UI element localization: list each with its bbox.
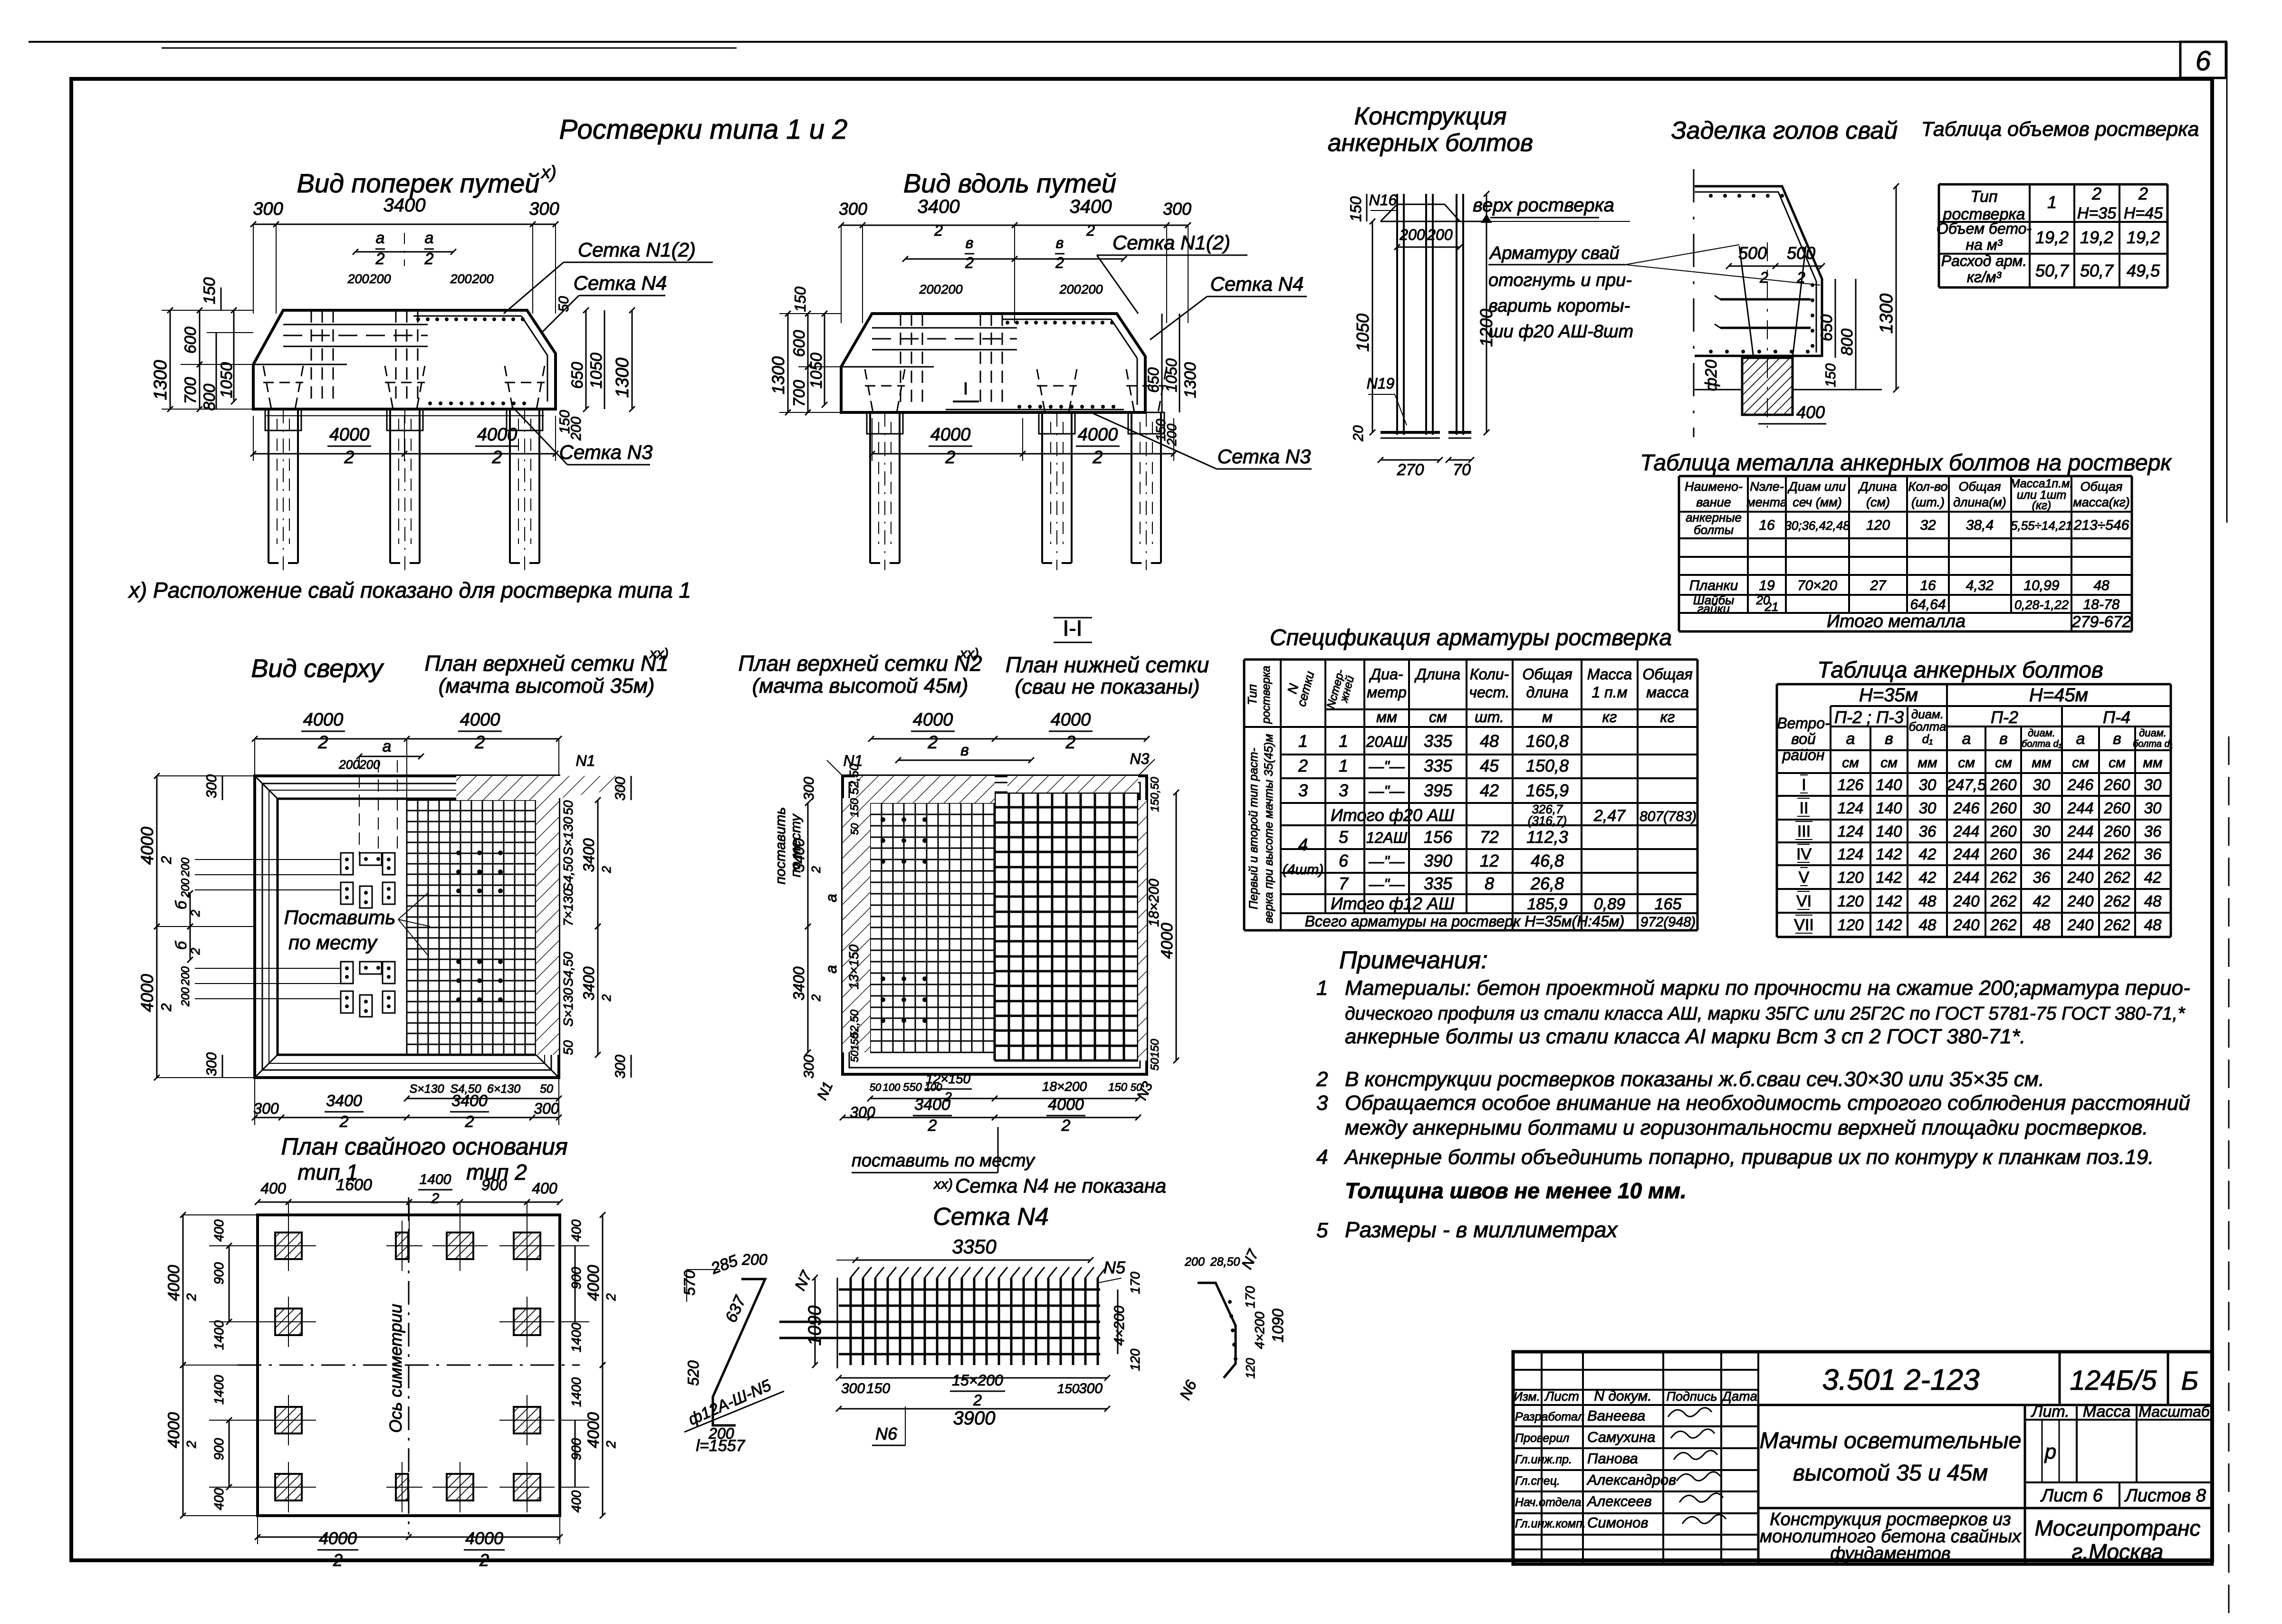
svg-text:Тип: Тип xyxy=(1970,188,1998,206)
svg-text:400: 400 xyxy=(569,1490,584,1512)
svg-text:кг/м³: кг/м³ xyxy=(1967,268,2002,286)
svg-text:а: а xyxy=(376,229,385,247)
svg-text:972(948): 972(948) xyxy=(1640,915,1696,930)
svg-text:21: 21 xyxy=(1764,600,1779,614)
svg-text:19,2: 19,2 xyxy=(2035,228,2069,247)
svg-text:Сетка N1(2): Сетка N1(2) xyxy=(1112,231,1230,254)
svg-text:16: 16 xyxy=(1759,517,1775,533)
svg-text:см: см xyxy=(1995,755,2012,771)
svg-text:200: 200 xyxy=(338,757,360,772)
svg-text:13×150: 13×150 xyxy=(846,944,861,989)
pile cap outline (vdol) xyxy=(841,314,1145,412)
svg-text:кг: кг xyxy=(1602,708,1617,726)
svg-text:(шт.): (шт.) xyxy=(1911,495,1945,509)
svg-text:б: б xyxy=(173,900,190,909)
svg-text:50: 50 xyxy=(561,800,575,815)
svg-text:2: 2 xyxy=(973,1392,982,1409)
svg-text:200: 200 xyxy=(471,272,493,286)
svg-text:Лит.: Лит. xyxy=(2031,1403,2070,1421)
svg-text:2: 2 xyxy=(184,1293,199,1301)
svg-text:300: 300 xyxy=(839,199,867,219)
svg-text:Сетка N4: Сетка N4 xyxy=(933,1203,1049,1231)
svg-text:1: 1 xyxy=(2047,192,2057,212)
svg-text:16: 16 xyxy=(1920,578,1936,593)
svg-text:Самухина: Самухина xyxy=(1587,1429,1655,1445)
svg-text:200: 200 xyxy=(359,757,380,772)
svg-text:140: 140 xyxy=(1876,776,1902,793)
svg-text:50: 50 xyxy=(561,1040,575,1055)
svg-text:1050: 1050 xyxy=(1353,314,1372,352)
svg-text:3400: 3400 xyxy=(326,1092,362,1110)
svg-text:0,28-1,22: 0,28-1,22 xyxy=(2014,598,2069,612)
svg-text:масса: масса xyxy=(1646,684,1689,701)
svg-text:Масштаб: Масштаб xyxy=(2138,1403,2210,1420)
svg-text:140: 140 xyxy=(1876,822,1902,840)
svg-text:50: 50 xyxy=(870,1081,882,1093)
svg-text:I: I xyxy=(1802,776,1806,794)
svg-text:4×200: 4×200 xyxy=(1252,1311,1267,1349)
svg-text:4000: 4000 xyxy=(165,1412,183,1448)
svg-text:50,7: 50,7 xyxy=(2080,261,2114,280)
svg-text:300: 300 xyxy=(801,1055,817,1079)
svg-text:48: 48 xyxy=(2144,892,2162,910)
svg-text:4,32: 4,32 xyxy=(1966,578,1994,593)
svg-text:см: см xyxy=(2072,755,2089,771)
svg-text:П-4: П-4 xyxy=(2103,707,2130,727)
svg-text:390: 390 xyxy=(1424,851,1452,870)
svg-text:(мачта высотой 45м): (мачта высотой 45м) xyxy=(752,674,968,697)
svg-text:200: 200 xyxy=(1081,282,1103,296)
svg-text:2: 2 xyxy=(928,1117,937,1135)
svg-text:335: 335 xyxy=(1424,874,1453,893)
svg-text:48: 48 xyxy=(2093,578,2109,593)
svg-text:200: 200 xyxy=(940,282,962,296)
svg-text:150: 150 xyxy=(201,277,219,305)
svg-text:4: 4 xyxy=(1316,1146,1328,1169)
svg-text:300: 300 xyxy=(1079,1381,1103,1396)
svg-text:300: 300 xyxy=(613,777,628,801)
hatched pile head xyxy=(1742,358,1793,415)
svg-text:S×130: S×130 xyxy=(410,1082,444,1096)
svg-text:650: 650 xyxy=(1145,367,1162,393)
svg-text:1300: 1300 xyxy=(768,356,788,394)
piles (poperek) xyxy=(268,409,269,563)
svg-text:III: III xyxy=(1797,822,1811,841)
svg-text:по месту: по месту xyxy=(788,813,804,878)
svg-text:6×130: 6×130 xyxy=(487,1082,520,1096)
page number box xyxy=(2180,42,2226,78)
svg-text:(4шт): (4шт) xyxy=(1283,862,1324,878)
view: vid vdol putei drawing xyxy=(841,225,1188,226)
svg-text:120: 120 xyxy=(1866,517,1890,533)
svg-text:Вид поперек путей: Вид поперек путей xyxy=(297,168,540,198)
svg-text:верх ростверка: верх ростверка xyxy=(1473,195,1614,216)
svg-text:800: 800 xyxy=(201,384,219,411)
svg-text:3350: 3350 xyxy=(952,1235,997,1258)
svg-text:12АШ: 12АШ xyxy=(1366,829,1408,846)
svg-text:10,99: 10,99 xyxy=(2023,578,2059,593)
hatched piles xyxy=(275,1232,302,1259)
svg-text:900: 900 xyxy=(481,1176,507,1194)
svg-text:30;36,42,48: 30;36,42,48 xyxy=(1784,518,1850,533)
svg-text:200: 200 xyxy=(179,966,192,986)
svg-text:поставить по месту: поставить по месту xyxy=(852,1151,1036,1171)
svg-text:142: 142 xyxy=(1876,916,1902,934)
svg-text:1: 1 xyxy=(1316,976,1328,1000)
svg-text:ф20: ф20 xyxy=(1702,360,1720,391)
svg-text:х): х) xyxy=(540,162,556,182)
svg-text:170: 170 xyxy=(1128,1271,1142,1294)
svg-text:4000: 4000 xyxy=(137,974,157,1012)
svg-text:260: 260 xyxy=(1990,776,2017,793)
svg-text:1050: 1050 xyxy=(807,353,825,389)
svg-text:диам.: диам. xyxy=(2139,727,2167,739)
svg-text:395: 395 xyxy=(1424,781,1453,800)
svg-text:36: 36 xyxy=(2033,845,2051,863)
svg-text:400: 400 xyxy=(211,1488,226,1510)
svg-text:70×20: 70×20 xyxy=(1797,578,1838,593)
left dimension chain (poperek) xyxy=(162,310,253,311)
svg-text:Масса: Масса xyxy=(1587,666,1632,683)
svg-text:в: в xyxy=(960,741,969,759)
svg-text:2: 2 xyxy=(479,1550,489,1570)
svg-text:В конструкции ростверков показ: В конструкции ростверков показаны ж.б.св… xyxy=(1345,1068,2044,1091)
svg-text:1400: 1400 xyxy=(569,1322,584,1352)
svg-text:400: 400 xyxy=(260,1180,286,1197)
svg-text:200: 200 xyxy=(1427,226,1453,243)
svg-text:—"—: —"— xyxy=(1368,853,1405,870)
svg-text:200: 200 xyxy=(1184,1255,1205,1269)
svg-text:42: 42 xyxy=(1480,781,1499,800)
svg-text:1300: 1300 xyxy=(1877,294,1897,334)
svg-text:Планки: Планки xyxy=(1689,578,1738,593)
svg-text:200: 200 xyxy=(1059,282,1081,296)
svg-text:а: а xyxy=(1846,730,1855,748)
svg-text:2: 2 xyxy=(2091,184,2101,203)
svg-text:244: 244 xyxy=(1953,869,1979,886)
svg-text:1: 1 xyxy=(1339,731,1348,751)
svg-text:300: 300 xyxy=(801,777,817,801)
svg-text:хх): хх) xyxy=(959,646,979,661)
svg-text:3400: 3400 xyxy=(790,966,807,1000)
svg-text:Гл.спец.: Гл.спец. xyxy=(1515,1474,1560,1488)
svg-text:4000: 4000 xyxy=(1048,1096,1084,1114)
svg-text:19,2: 19,2 xyxy=(2127,228,2160,247)
detail: bent bar f12A-III-N5 xyxy=(713,1279,765,1425)
svg-text:240: 240 xyxy=(2067,916,2094,934)
detail: bent bar N7 xyxy=(1198,1283,1236,1378)
svg-text:Материалы: бетон проектной мар: Материалы: бетон проектной марки по проч… xyxy=(1345,976,2190,1000)
svg-text:2: 2 xyxy=(1316,1068,1328,1091)
svg-text:48: 48 xyxy=(1919,892,1937,910)
svg-text:100: 100 xyxy=(883,1081,901,1093)
svg-text:150: 150 xyxy=(848,798,861,817)
svg-text:Сетка N3: Сетка N3 xyxy=(1218,445,1311,468)
svg-text:План свайного основания: План свайного основания xyxy=(281,1133,567,1160)
view: vid poperek putei drawing xyxy=(253,224,556,225)
svg-text:124Б/5: 124Б/5 xyxy=(2070,1365,2157,1396)
svg-text:30: 30 xyxy=(2144,776,2162,793)
svg-text:300: 300 xyxy=(534,1100,559,1117)
svg-text:46,8: 46,8 xyxy=(1531,851,1564,870)
svg-text:240: 240 xyxy=(2067,869,2094,886)
svg-text:2: 2 xyxy=(1298,756,1308,775)
svg-text:2: 2 xyxy=(1086,222,1095,239)
svg-text:S4,50: S4,50 xyxy=(561,952,575,987)
svg-text:см: см xyxy=(1958,755,1975,771)
svg-text:болты: болты xyxy=(1694,523,1734,537)
svg-text:анкерные болты из стали класса: анкерные болты из стали класса АI марки … xyxy=(1345,1025,2025,1048)
svg-text:2: 2 xyxy=(333,1550,343,1570)
svg-text:I: I xyxy=(963,379,968,398)
svg-text:500: 500 xyxy=(1787,243,1815,263)
svg-text:200: 200 xyxy=(179,987,192,1007)
svg-text:4000: 4000 xyxy=(930,425,971,445)
svg-text:VII: VII xyxy=(1794,916,1814,934)
svg-text:4000: 4000 xyxy=(1078,425,1118,445)
svg-text:мм: мм xyxy=(1376,708,1397,726)
svg-text:142: 142 xyxy=(1876,892,1902,910)
svg-text:высотой 35 и 45м: высотой 35 и 45м xyxy=(1793,1461,1988,1486)
svg-text:Nэле-: Nэле- xyxy=(1750,479,1783,494)
svg-text:200: 200 xyxy=(1399,226,1425,243)
svg-text:150: 150 xyxy=(1108,1081,1128,1094)
svg-text:36: 36 xyxy=(2144,822,2162,840)
svg-text:вание: вание xyxy=(1696,495,1731,509)
svg-text:38,4: 38,4 xyxy=(1966,517,1994,533)
svg-text:Н=45: Н=45 xyxy=(2124,204,2163,222)
svg-text:Диам или: Диам или xyxy=(1787,479,1846,494)
svg-text:2: 2 xyxy=(465,1113,474,1131)
svg-text:150: 150 xyxy=(1347,196,1364,222)
svg-text:400: 400 xyxy=(569,1219,584,1242)
svg-text:19,2: 19,2 xyxy=(2080,228,2113,247)
svg-text:150: 150 xyxy=(866,1381,890,1396)
svg-text:200: 200 xyxy=(450,272,471,286)
svg-text:дического профиля из стали кла: дического профиля из стали класса АШ, ма… xyxy=(1345,1003,2186,1024)
svg-text:36: 36 xyxy=(2033,869,2051,886)
svg-text:36: 36 xyxy=(2144,845,2162,863)
svg-text:300: 300 xyxy=(204,774,220,798)
svg-text:2: 2 xyxy=(604,1441,618,1449)
svg-text:2: 2 xyxy=(599,994,614,1002)
svg-text:6: 6 xyxy=(2196,46,2211,76)
svg-text:2: 2 xyxy=(188,909,202,917)
svg-text:Нач.отдела: Нач.отдела xyxy=(1515,1496,1582,1509)
svg-text:3: 3 xyxy=(1339,781,1348,800)
svg-text:124: 124 xyxy=(1837,822,1863,840)
svg-text:х) Расположение свай показан: х) Расположение свай показано для ростве… xyxy=(128,578,691,602)
svg-text:900: 900 xyxy=(211,1262,226,1284)
svg-text:20: 20 xyxy=(1351,425,1366,442)
svg-text:200: 200 xyxy=(369,272,391,286)
svg-text:112,3: 112,3 xyxy=(1526,827,1568,847)
svg-text:мм: мм xyxy=(2032,755,2051,771)
svg-text:Лист: Лист xyxy=(1544,1389,1579,1404)
svg-text:3400: 3400 xyxy=(451,1092,488,1110)
svg-text:50: 50 xyxy=(849,823,861,835)
svg-text:300: 300 xyxy=(1163,199,1191,219)
svg-text:болта d₁: болта d₁ xyxy=(2133,739,2173,749)
svg-text:1400: 1400 xyxy=(211,1320,226,1350)
svg-text:1300: 1300 xyxy=(613,358,633,398)
svg-text:П-2: П-2 xyxy=(1991,707,2018,727)
svg-text:1600: 1600 xyxy=(336,1176,372,1194)
svg-text:а: а xyxy=(425,229,434,247)
svg-text:5: 5 xyxy=(1316,1219,1328,1242)
svg-text:Мосгипротранс: Мосгипротранс xyxy=(2035,1516,2201,1540)
svg-text:550: 550 xyxy=(903,1081,922,1094)
svg-text:Сетка N4 не показана: Сетка N4 не показана xyxy=(955,1175,1166,1197)
svg-text:N1: N1 xyxy=(576,752,595,769)
svg-text:2: 2 xyxy=(1061,1117,1071,1135)
svg-text:между анкерными болтами и гори: между анкерными болтами и горизонтальнос… xyxy=(1345,1116,2148,1139)
svg-text:Сетка N4: Сетка N4 xyxy=(574,272,667,294)
svg-text:120: 120 xyxy=(1128,1348,1142,1371)
svg-text:Листов 8: Листов 8 xyxy=(2124,1486,2206,1506)
svg-text:Б: Б xyxy=(2181,1366,2198,1395)
svg-text:42: 42 xyxy=(2033,892,2051,910)
svg-text:300: 300 xyxy=(253,1100,279,1117)
svg-text:4000: 4000 xyxy=(465,1528,503,1548)
svg-text:Длина: Длина xyxy=(1414,666,1460,683)
svg-text:30: 30 xyxy=(2033,822,2051,840)
svg-text:поставить: поставить xyxy=(773,807,788,885)
svg-text:Общая: Общая xyxy=(1642,666,1692,683)
svg-text:600: 600 xyxy=(790,330,808,357)
svg-text:Ось симметрии: Ось симметрии xyxy=(386,1304,405,1433)
svg-text:156: 156 xyxy=(1424,827,1453,847)
svg-text:170: 170 xyxy=(1243,1286,1257,1308)
svg-text:фундаментов: фундаментов xyxy=(1830,1544,1950,1564)
svg-text:4000: 4000 xyxy=(165,1265,183,1301)
svg-text:120: 120 xyxy=(1243,1358,1257,1379)
svg-text:160,8: 160,8 xyxy=(1526,731,1569,751)
svg-text:3400: 3400 xyxy=(384,195,426,216)
svg-text:(сваи не показаны): (сваи не показаны) xyxy=(1015,675,1199,698)
svg-text:Толщина швов не менее 10 м: Толщина швов не менее 10 мм. xyxy=(1345,1178,1687,1203)
svg-text:26,8: 26,8 xyxy=(1530,874,1564,893)
svg-text:142: 142 xyxy=(1876,845,1902,863)
svg-text:см: см xyxy=(1842,755,1859,771)
svg-text:8: 8 xyxy=(1485,874,1494,893)
svg-text:3: 3 xyxy=(1316,1091,1328,1115)
svg-text:4000: 4000 xyxy=(319,1528,357,1548)
svg-text:Ванеева: Ванеева xyxy=(1587,1407,1645,1424)
svg-text:2: 2 xyxy=(809,994,823,1002)
svg-text:метр: метр xyxy=(1367,684,1406,701)
svg-text:246: 246 xyxy=(2067,776,2094,793)
svg-text:150: 150 xyxy=(1057,1381,1080,1396)
svg-text:300: 300 xyxy=(613,1055,628,1079)
svg-text:1300: 1300 xyxy=(1181,362,1199,398)
svg-text:кг: кг xyxy=(1660,708,1675,726)
svg-text:300: 300 xyxy=(204,1052,220,1076)
svg-text:N5: N5 xyxy=(1103,1258,1126,1277)
svg-text:чест.: чест. xyxy=(1469,684,1509,701)
svg-text:Проверил: Проверил xyxy=(1515,1432,1569,1445)
svg-text:Симонов: Симонов xyxy=(1587,1514,1649,1531)
svg-text:S×130: S×130 xyxy=(561,817,575,856)
svg-text:Вид вдоль путей: Вид вдоль путей xyxy=(903,168,1116,198)
svg-text:(мачта высотой 35м): (мачта высотой 35м) xyxy=(439,674,655,697)
svg-text:1400: 1400 xyxy=(569,1377,584,1407)
svg-text:S×130: S×130 xyxy=(561,988,575,1027)
svg-text:48: 48 xyxy=(2033,916,2051,934)
svg-text:4000: 4000 xyxy=(477,425,518,445)
svg-text:120: 120 xyxy=(1837,869,1864,886)
svg-text:(кг): (кг) xyxy=(2032,499,2052,512)
svg-text:ши ф20 АШ-8шт: ши ф20 АШ-8шт xyxy=(1488,322,1633,342)
svg-text:Сетка N3: Сетка N3 xyxy=(559,441,653,463)
svg-text:2: 2 xyxy=(1065,733,1075,753)
svg-text:213÷546: 213÷546 xyxy=(2073,517,2129,533)
svg-text:50: 50 xyxy=(540,1082,553,1096)
svg-text:4000: 4000 xyxy=(303,710,344,730)
svg-text:N6: N6 xyxy=(875,1424,898,1443)
svg-text:3400: 3400 xyxy=(914,1096,950,1114)
svg-text:30: 30 xyxy=(2144,799,2162,817)
svg-text:4000: 4000 xyxy=(913,710,953,730)
svg-text:2: 2 xyxy=(159,1003,174,1012)
svg-text:3400: 3400 xyxy=(918,196,960,217)
svg-text:400: 400 xyxy=(211,1219,226,1242)
svg-text:а: а xyxy=(823,894,840,902)
svg-text:Подпись: Подпись xyxy=(1666,1389,1717,1404)
svg-text:124: 124 xyxy=(1837,845,1863,863)
svg-text:масса(кг): масса(кг) xyxy=(2073,495,2130,509)
svg-text:700: 700 xyxy=(790,380,808,407)
svg-text:2: 2 xyxy=(934,222,943,239)
svg-text:диам.: диам. xyxy=(2028,727,2055,739)
svg-text:Сетка N1(2): Сетка N1(2) xyxy=(578,239,696,261)
svg-text:Н=45м: Н=45м xyxy=(2029,685,2088,706)
svg-text:262: 262 xyxy=(2103,869,2130,886)
svg-text:200: 200 xyxy=(1164,423,1179,446)
svg-text:Кол-во: Кол-во xyxy=(1908,479,1947,494)
svg-text:Таблица металла анкерных болто: Таблица металла анкерных болтов на роств… xyxy=(1640,450,2172,476)
svg-text:Мачты осветительные: Мачты осветительные xyxy=(1760,1428,2022,1453)
svg-text:260: 260 xyxy=(2103,799,2130,817)
svg-text:Всего арматуры на ростверк Н=3: Всего арматуры на ростверк Н=35м(Н:45м) xyxy=(1305,913,1625,930)
svg-text:а: а xyxy=(2076,730,2085,748)
svg-text:Н=35м: Н=35м xyxy=(1859,685,1918,706)
anchor bolt groups in plan xyxy=(341,853,353,875)
svg-text:6: 6 xyxy=(1339,851,1349,870)
svg-text:2: 2 xyxy=(945,448,955,468)
svg-text:0,89: 0,89 xyxy=(1594,895,1625,913)
svg-text:240: 240 xyxy=(2067,892,2094,910)
svg-text:Объем бето-: Объем бето- xyxy=(1937,220,2032,237)
svg-text:2: 2 xyxy=(604,1293,618,1301)
svg-text:см: см xyxy=(1429,708,1447,726)
svg-text:185,9: 185,9 xyxy=(1527,895,1567,913)
svg-text:в: в xyxy=(1056,234,1064,251)
pile cap outline (poperek) xyxy=(253,310,556,409)
svg-text:42: 42 xyxy=(1919,845,1937,863)
svg-text:7: 7 xyxy=(1339,874,1349,893)
svg-text:500: 500 xyxy=(1738,243,1767,263)
svg-text:а: а xyxy=(1962,730,1971,748)
svg-text:см: см xyxy=(1880,755,1898,771)
svg-text:гайки: гайки xyxy=(1697,602,1730,616)
svg-text:12: 12 xyxy=(1480,851,1499,870)
svg-text:600: 600 xyxy=(182,327,200,354)
svg-text:262: 262 xyxy=(1990,892,2016,910)
svg-text:ростверка: ростверка xyxy=(1260,666,1273,724)
svg-text:см: см xyxy=(2109,755,2126,771)
svg-text:1050: 1050 xyxy=(218,362,236,398)
